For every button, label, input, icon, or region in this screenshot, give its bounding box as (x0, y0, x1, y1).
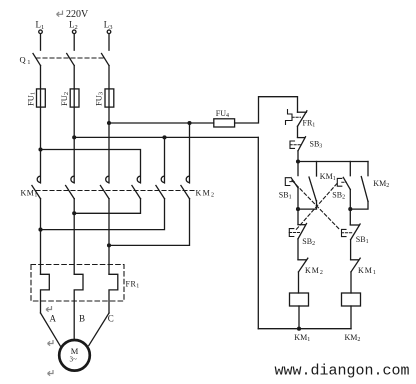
motor M circle (59, 340, 90, 371)
pushbutton SB2 NC blade (298, 224, 307, 239)
wire KM2 pole2 feed down (164, 137, 166, 183)
wire A to motor (41, 313, 61, 346)
wire coil KM1 to bus (298, 306, 300, 329)
switch Q1 pole 1 blade (33, 54, 41, 66)
svg-text:Q 1: Q 1 (20, 55, 31, 67)
pushbutton SB1 NC dash link (342, 232, 354, 234)
wire KM1 pole2 down (phase B) (73, 199, 75, 275)
fuse FU4 (214, 119, 235, 127)
node L3 terminal (107, 30, 111, 34)
switch Q1 linkage dashed (36, 57, 105, 59)
pushbutton SB1 start (297, 162, 299, 176)
svg-text:KM1: KM1 (358, 266, 377, 276)
svg-text:B: B (79, 314, 85, 324)
thermal relay FR1 heater C (109, 274, 118, 313)
svg-text:KM1: KM1 (320, 172, 336, 182)
pushbutton SB2 NC actuator (289, 229, 294, 237)
wire KM1 pole3 down (phase C) (108, 199, 110, 275)
wire FU4 to control riser (235, 97, 298, 123)
wire tap L3 to FU4 (109, 122, 214, 124)
svg-text:L3: L3 (104, 19, 113, 31)
wire L2 to switch (73, 34, 75, 50)
wire KM2 pole2 to phase A (41, 199, 165, 230)
pushbutton SB2 start (349, 162, 351, 176)
pushbutton SB2 dash link (342, 181, 347, 183)
wire SB3 to branch split (297, 151, 299, 162)
pushbutton SB2 NC dash link (289, 232, 301, 234)
relay FR1 actuator dash link (292, 116, 301, 118)
pushbutton SB3 stop blade (298, 137, 306, 151)
contactor KM2 pole 2 (161, 176, 164, 182)
fuse FU2 (70, 89, 79, 107)
contactor KM1 pole 2 (71, 176, 74, 182)
svg-text:SB1: SB1 (279, 191, 292, 201)
svg-text:KM2: KM2 (305, 266, 324, 276)
node junction branch split (296, 159, 300, 163)
node L2 terminal (72, 30, 76, 34)
svg-text:FU2: FU2 (59, 92, 70, 106)
node junction KM2 pole2 feed (162, 135, 166, 139)
fuse FU3 (105, 89, 114, 107)
pushbutton SB1 dash link (290, 181, 294, 183)
contact KM1 NC blade (351, 258, 360, 272)
svg-text:SB1: SB1 (356, 235, 369, 245)
svg-text:SB2: SB2 (332, 191, 345, 201)
contactor KM2 pole 3 (186, 176, 189, 182)
contact KM2 NC bar (298, 259, 306, 261)
coil KM2 (342, 293, 361, 306)
node junction L3 tap (107, 121, 111, 125)
contact KM2 NC blade (299, 258, 308, 272)
contactor linkage dashed (36, 190, 194, 192)
switch Q1 pole 3 blade (102, 54, 110, 66)
relay FR1 NC contact blade (298, 111, 307, 127)
wire to coil KM2 (350, 272, 352, 293)
wire L1 switch to fuse (40, 66, 42, 184)
pushbutton SB2 actuator (337, 178, 342, 186)
svg-text:KM1: KM1 (294, 333, 310, 343)
wire branch top bus (298, 161, 368, 163)
wire KM1 pole1 down (phase A) (40, 199, 42, 275)
svg-text:3~: 3~ (70, 356, 78, 364)
symbol return arrow top (57, 11, 63, 17)
pushbutton SB1 actuator (285, 178, 290, 186)
pushbutton SB3 stop bar (298, 137, 305, 139)
wire tap L2 to return rail (74, 136, 258, 138)
svg-text:L2: L2 (69, 19, 78, 31)
pushbutton SB1 NC actuator (342, 229, 347, 236)
svg-text:KM2: KM2 (373, 179, 389, 189)
node junction coil KM1 bus (297, 327, 301, 331)
node junction L2 tap (72, 135, 76, 139)
symbol return arrow motor bottom (48, 370, 54, 376)
wire L3 to switch (108, 34, 110, 50)
contactor KM1 pole 1 (37, 176, 40, 182)
wire bottom bus (258, 328, 351, 330)
svg-text:FR1: FR1 (126, 279, 140, 289)
pushbutton SB1 NC bar (350, 224, 359, 226)
wire KM2 pole3 feed down (189, 123, 191, 183)
node junction C crossover (107, 243, 111, 247)
symbol return arrow above A (46, 306, 52, 312)
wire C to motor (89, 313, 109, 346)
node junction B crossover (72, 211, 76, 215)
wire to KM1 NC (350, 240, 352, 260)
pushbutton SB1 NC blade (351, 224, 361, 240)
relay FR1 thermal actuator hook (286, 110, 293, 125)
contactor KM2 pole 1 (137, 176, 140, 182)
pushbutton SB3 dash link (290, 144, 301, 146)
wire KM2 pole3 to phase C (109, 199, 190, 246)
svg-text:FR1: FR1 (303, 119, 316, 129)
pushbutton FR contact bar (298, 111, 307, 113)
symbol return arrow motor left (48, 340, 54, 346)
svg-text:SB3: SB3 (310, 140, 323, 150)
node L1 terminal (39, 30, 43, 34)
mechanical link SB1 dashed (292, 181, 340, 231)
pushbutton SB3 actuator (290, 141, 295, 148)
svg-text:220V: 220V (66, 9, 89, 20)
thermal relay FR1 heater B (74, 274, 83, 340)
wire FR to SB3 (297, 126, 299, 137)
thermal relay FR1 heater A (41, 274, 50, 313)
node junction A crossover (38, 228, 42, 232)
svg-text:FU1: FU1 (26, 92, 37, 106)
mechanical link SB2 dashed (295, 184, 337, 231)
svg-text:FU4: FU4 (216, 109, 229, 119)
wire left branch down (297, 209, 299, 224)
contact KM2 aux (367, 162, 369, 176)
wire return rail down (257, 137, 259, 328)
wire L2 switch to fuse (73, 66, 75, 184)
thermal relay FR1 box dashed (31, 265, 124, 302)
svg-text:C: C (108, 314, 114, 324)
svg-text:SB2: SB2 (302, 237, 315, 247)
coil KM1 (290, 293, 309, 306)
wire to coil KM1 (298, 272, 300, 293)
fuse FU1 (37, 89, 46, 107)
contact KM1 aux (316, 162, 318, 177)
wire tap L1 to KM2 pole1 (41, 150, 141, 184)
svg-text:KM2: KM2 (196, 189, 216, 199)
wire KM2 pole1 to phase B (74, 199, 140, 214)
wire coil KM2 to bus (350, 306, 352, 329)
pushbutton SB2 NC bar (298, 224, 305, 226)
svg-text:L1: L1 (36, 19, 45, 31)
wire L3 switch to fuse (108, 66, 110, 184)
node junction KM2 pole3 feed (187, 121, 191, 125)
wire right branch down (349, 209, 351, 225)
svg-text:www.diangon.com: www.diangon.com (275, 363, 410, 380)
contact KM1 NC bar (351, 259, 359, 261)
svg-text:A: A (50, 314, 57, 324)
switch Q1 pole 2 blade (67, 54, 75, 66)
wire to KM2 NC (297, 239, 299, 260)
contactor KM1 pole 3 (106, 176, 109, 182)
node junction right branch rejoin (348, 207, 352, 211)
node junction left branch rejoin (296, 207, 300, 211)
wire L1 to switch (40, 34, 42, 50)
svg-text:KM2: KM2 (345, 333, 361, 343)
svg-text:FU3: FU3 (94, 92, 105, 106)
node junction L1 tap (38, 147, 42, 151)
